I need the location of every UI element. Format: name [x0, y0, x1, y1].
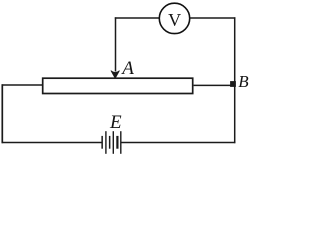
svg-text:A: A — [120, 58, 134, 79]
wire: voltmeter left lead (horizontal, corner to circle) — [115, 17, 159, 19]
wire: rheostat left terminal (horizontal to left bus) — [2, 84, 43, 86]
svg-text:B: B — [238, 72, 249, 91]
wire: vertical drop from corner to wiper arrow — [115, 17, 117, 71]
svg-text:V: V — [168, 10, 181, 30]
wire: voltmeter right lead (horizontal to right bus) — [190, 17, 236, 19]
wire: rheostat right terminal to node B — [194, 84, 231, 86]
battery E (three cells: short thick = negative plates, long thin = positive plates) — [101, 131, 121, 154]
wiper arrow at A (arrowhead touching rheostat top edge) — [111, 71, 119, 78]
wire: bottom run from left corner to battery negative plate — [2, 142, 102, 144]
resistor R (rheostat box body) — [43, 78, 193, 93]
wire: right vertical bus (top corner through B down to bottom corner) — [234, 17, 236, 143]
node B junction dot — [230, 81, 236, 87]
svg-text:E: E — [109, 112, 122, 133]
voltmeter V (circle body) — [159, 3, 189, 33]
wire: bottom run from battery positive plate to right corner — [121, 142, 235, 144]
wire: left vertical bus — [1, 84, 3, 143]
